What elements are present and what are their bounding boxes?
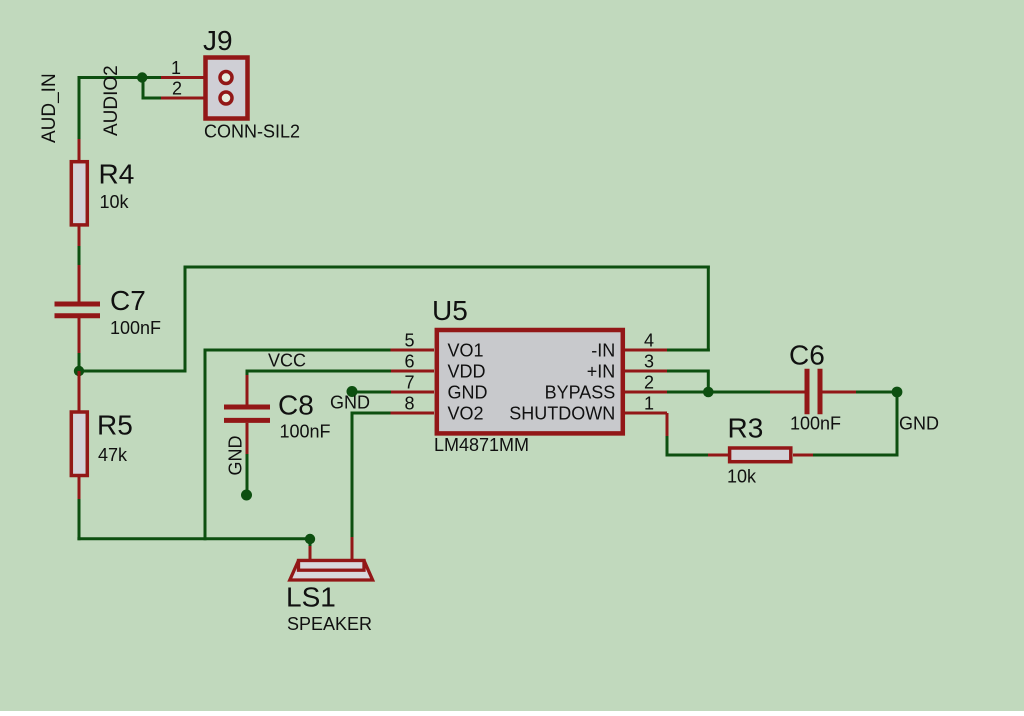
svg-text:AUDIO2: AUDIO2 xyxy=(101,65,122,136)
wire SHUTDOWN pin 1 corner xyxy=(666,413,669,436)
wire C6 to GND node xyxy=(856,391,898,394)
svg-text:VCC: VCC xyxy=(268,351,306,371)
resistor R4 xyxy=(71,139,87,246)
wire VO1 (pin 5) left and down xyxy=(205,350,391,540)
junction dot at speaker + terminal xyxy=(305,534,315,544)
svg-text:4: 4 xyxy=(644,330,654,350)
connector J9 xyxy=(161,58,248,119)
svg-text:47k: 47k xyxy=(98,445,128,465)
svg-text:100nF: 100nF xyxy=(110,318,161,338)
wire R4 to C7 xyxy=(78,246,81,265)
wire VO2 (pin 8) left and down xyxy=(352,413,391,537)
svg-text:3: 3 xyxy=(644,351,654,371)
op-amp IC U5 (LM4871MM) xyxy=(391,330,668,433)
junction dot node A (C7/R5/feedback) xyxy=(74,366,84,376)
resistor R5 xyxy=(71,371,87,499)
svg-text:10k: 10k xyxy=(727,467,757,487)
svg-text:1: 1 xyxy=(644,393,654,413)
svg-text:7: 7 xyxy=(404,372,414,392)
wire R5 bottom down xyxy=(78,499,81,540)
junction dot GND node (right) xyxy=(892,387,903,398)
svg-text:VDD: VDD xyxy=(448,362,486,382)
wire pin 3 to BYPASS junction xyxy=(667,371,708,393)
svg-text:C7: C7 xyxy=(110,285,146,316)
svg-text:+IN: +IN xyxy=(587,362,616,382)
capacitor C6 xyxy=(770,369,856,415)
svg-text:LS1: LS1 xyxy=(286,582,336,613)
wire feedback vertical up xyxy=(184,266,187,373)
svg-text:SHUTDOWN: SHUTDOWN xyxy=(509,404,615,424)
junction dot on AUD_IN net at pin1 branch xyxy=(137,72,147,82)
svg-text:1: 1 xyxy=(171,58,181,78)
capacitor C8 xyxy=(224,375,270,455)
svg-text:AUD_IN: AUD_IN xyxy=(39,73,60,143)
svg-text:GND: GND xyxy=(448,383,488,403)
resistor R3 xyxy=(708,448,813,462)
svg-text:VO1: VO1 xyxy=(448,341,484,361)
svg-text:2: 2 xyxy=(172,79,182,99)
wire C8 to GND terminal xyxy=(246,454,249,492)
wire GND node down xyxy=(896,392,899,457)
svg-text:VO2: VO2 xyxy=(448,404,484,424)
wire branch to J9 pin 2 xyxy=(143,78,161,99)
svg-text:R5: R5 xyxy=(97,410,133,441)
svg-text:U5: U5 xyxy=(432,295,468,326)
wire bottom right horizontal to R3 xyxy=(813,454,899,457)
svg-text:J9: J9 xyxy=(203,25,233,56)
svg-text:LM4871MM: LM4871MM xyxy=(434,435,529,455)
svg-text:C8: C8 xyxy=(278,390,314,421)
wire GND net from pin 7 xyxy=(354,391,391,394)
svg-text:GND: GND xyxy=(899,414,939,434)
svg-text:R3: R3 xyxy=(728,413,764,444)
ground terminal dot (C8) xyxy=(241,490,252,501)
wire bottom horizontal to speaker xyxy=(77,537,310,540)
wire feedback node A to -IN: horizontal xyxy=(79,370,185,373)
svg-text:CONN-SIL2: CONN-SIL2 xyxy=(204,121,300,141)
svg-text:10k: 10k xyxy=(100,192,130,212)
wire pin 2 to C6 xyxy=(667,391,771,394)
wire pin 1 down to R3 xyxy=(667,436,708,457)
svg-text:GND: GND xyxy=(330,393,370,413)
svg-text:BYPASS: BYPASS xyxy=(545,383,616,403)
svg-text:2: 2 xyxy=(644,372,654,392)
svg-text:SPEAKER: SPEAKER xyxy=(287,614,372,634)
wire speaker + stub xyxy=(309,539,312,547)
svg-text:6: 6 xyxy=(404,351,414,371)
svg-text:GND: GND xyxy=(226,436,246,476)
wire feedback top horizontal xyxy=(184,266,710,269)
wire feedback down to pin 4 xyxy=(707,266,710,352)
wire into pin 4 xyxy=(667,349,710,352)
capacitor C7 xyxy=(55,265,101,353)
wire VCC net from pin 6 xyxy=(247,371,391,377)
svg-text:5: 5 xyxy=(404,330,414,350)
wire AUD_IN net (vertical + top horizontal) xyxy=(79,78,161,140)
svg-text:C6: C6 xyxy=(789,340,825,371)
svg-text:8: 8 xyxy=(404,393,414,413)
svg-text:-IN: -IN xyxy=(591,341,615,361)
svg-text:100nF: 100nF xyxy=(280,421,331,441)
speaker LS1 xyxy=(290,537,373,580)
wire C7 to node A xyxy=(78,353,81,371)
ground terminal dot (pin 7) xyxy=(347,386,358,397)
svg-text:R4: R4 xyxy=(99,159,135,190)
svg-text:100nF: 100nF xyxy=(790,414,841,434)
junction dot BYPASS node xyxy=(703,387,714,398)
